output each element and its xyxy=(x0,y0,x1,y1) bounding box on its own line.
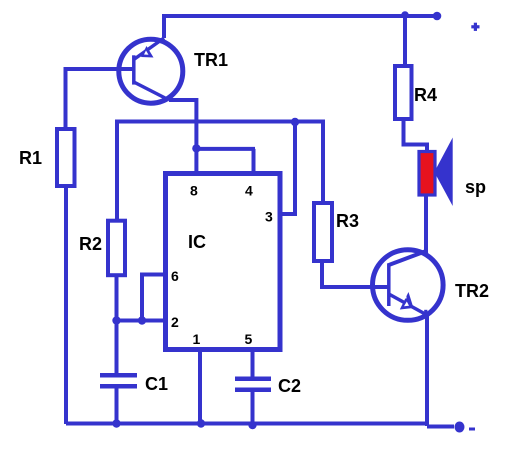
svg-text:TR1: TR1 xyxy=(194,50,228,70)
negative rail right segment xyxy=(427,425,454,429)
node C1 rail junction xyxy=(112,419,120,427)
wire R4 to speaker xyxy=(404,119,428,150)
speaker sp horn xyxy=(434,138,452,207)
svg-text:1: 1 xyxy=(193,331,201,347)
resistor R3 xyxy=(314,203,332,261)
wire TR1 base to R1 xyxy=(66,69,135,129)
wire pin 3 connection xyxy=(282,122,295,214)
node junction on top rail xyxy=(401,11,409,19)
negative rail wire xyxy=(66,422,427,426)
wire speaker to TR2 collector xyxy=(424,196,428,253)
svg-text:R2: R2 xyxy=(79,234,102,254)
node junction above pin3 xyxy=(291,118,299,126)
wire pin 2 horizontal xyxy=(117,319,166,323)
wire junction to IC pin 4 xyxy=(196,149,255,172)
op-amp IC body xyxy=(166,174,281,350)
svg-text:4: 4 xyxy=(245,183,253,199)
label + xyxy=(471,23,479,31)
svg-text:C2: C2 xyxy=(278,376,301,396)
node pin1 rail junction xyxy=(197,419,205,427)
node: positive terminal dot xyxy=(433,12,442,21)
svg-text:3: 3 xyxy=(265,209,273,225)
svg-text:R3: R3 xyxy=(336,211,359,231)
wire R4 top riser xyxy=(403,16,407,66)
capacitor C1 xyxy=(100,321,137,425)
wire R1 to negative rail xyxy=(64,186,68,424)
wire R3 riser from pin4/8 rail xyxy=(117,122,323,221)
top positive rail wire xyxy=(164,16,437,38)
node junction pin6 riser xyxy=(138,316,146,324)
svg-text:5: 5 xyxy=(245,331,253,347)
wire TR1 collector to IC pin 8 xyxy=(169,100,196,172)
wire TR2 emitter to negative rail xyxy=(425,315,429,426)
node junction R2 C1 xyxy=(112,316,120,324)
speaker sp body xyxy=(419,152,435,196)
wire TR2 base from R3 xyxy=(322,261,389,287)
node C2 rail junction xyxy=(248,421,256,429)
wire IC pin 1 to rail xyxy=(198,350,202,424)
svg-text:TR2: TR2 xyxy=(455,281,489,301)
wire pin 6 connection xyxy=(142,275,165,321)
svg-text:6: 6 xyxy=(171,268,179,284)
svg-text:sp: sp xyxy=(465,177,486,197)
svg-text:C1: C1 xyxy=(145,374,168,394)
label - xyxy=(469,428,475,431)
svg-text:IC: IC xyxy=(188,232,206,252)
transistor TR2 xyxy=(373,250,444,321)
transistor TR1 xyxy=(119,38,183,103)
node junction pin8 xyxy=(192,144,200,152)
svg-text:8: 8 xyxy=(190,183,198,199)
resistor R2 xyxy=(108,221,125,276)
node negative terminal dot xyxy=(455,422,465,433)
resistor R4 xyxy=(395,66,412,119)
svg-text:2: 2 xyxy=(171,314,179,330)
capacitor C2 xyxy=(235,350,271,425)
wire R2 bottom to pin2 node xyxy=(115,275,119,320)
svg-text:R1: R1 xyxy=(19,148,42,168)
svg-text:R4: R4 xyxy=(414,85,437,105)
resistor R1 xyxy=(57,129,75,186)
